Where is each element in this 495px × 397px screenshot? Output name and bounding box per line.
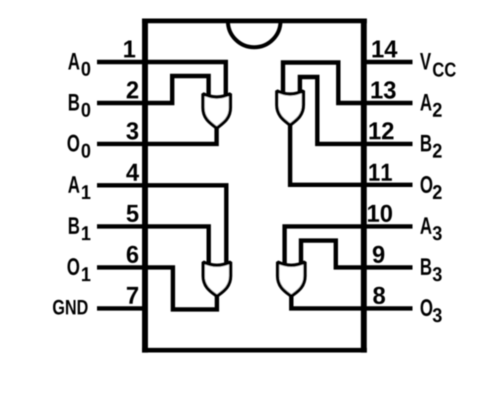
IC body DIP-14 outline [142,19,367,353]
pin number 12 [370,122,394,139]
label O0 [68,135,91,158]
wire pin2 B0 to gate U1A input [97,76,209,103]
notch index semicircle [228,21,281,47]
label A2 [420,94,441,117]
wire pin5 B1 to gate U1C input [97,226,209,266]
pin number 13 [372,81,396,98]
pin number 11 [369,164,392,181]
pin number 6 [127,246,138,263]
label B2 [421,135,442,158]
or-gate U1C [203,262,230,296]
label A3 [420,217,441,240]
wire pin9 B3 to gate U1D input [301,241,413,268]
pin number 5 [127,205,139,222]
or-gate U1B [277,91,304,125]
wire pin4 A1 to gate U1C input [97,185,226,266]
pin number 14 [373,41,398,58]
label B0 [69,94,90,117]
label B1 [69,217,91,240]
wire pin1 A0 to gate U1A input [97,62,226,98]
pin number 2 [127,81,139,98]
label O3 [421,299,442,322]
pin number 9 [373,246,385,263]
label O1 [68,258,91,281]
wire pin10 A3 to gate U1D input [285,226,413,266]
label GND [53,300,88,315]
pin number 7 [127,287,138,304]
pin number 8 [373,287,385,304]
pin number 4 [126,164,139,181]
wire pin12 B2 to gate U1B input [300,77,413,144]
label A0 [68,53,90,76]
or-gate U1A [203,94,230,128]
wire pin13 A2 to gate U1B input [283,63,413,104]
wire gate U1C output to pin6 O1 [97,267,217,309]
wire pin14 VCC stub [362,60,413,64]
wire pin7 GND stub [97,306,145,310]
pin number 1 [124,41,135,58]
pin number 3 [126,122,138,139]
label VCC [420,53,456,77]
or-gate U1D [278,262,305,296]
label O2 [421,176,442,199]
wire gate U1B output to pin11 O2 [290,122,412,185]
label B3 [421,258,442,281]
wire gate U1D output to pin8 O3 [291,293,412,308]
pin number 10 [368,205,392,222]
label A1 [68,176,90,199]
wire gate U1A output to pin3 O0 [97,125,217,144]
